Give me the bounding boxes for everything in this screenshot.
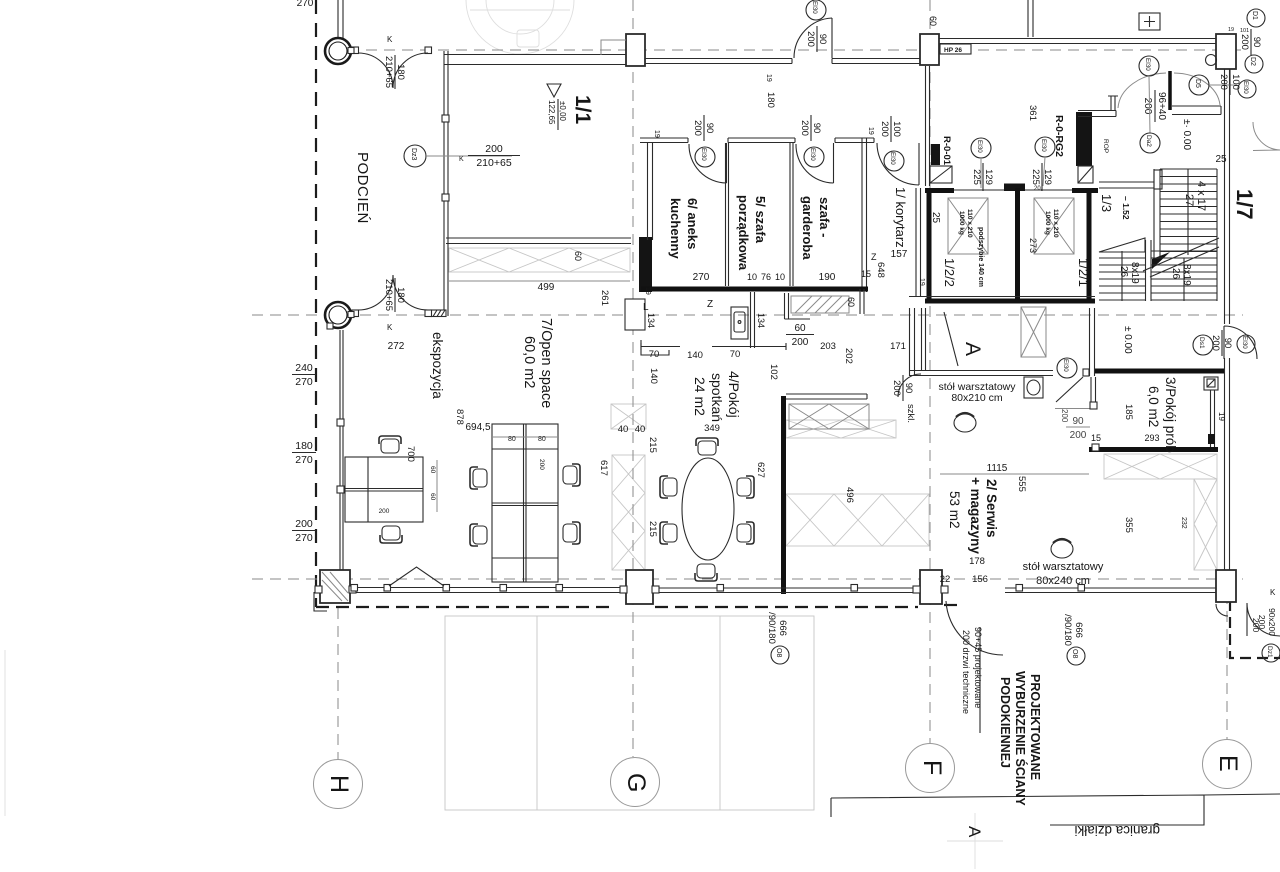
svg-text:K: K: [459, 156, 464, 163]
vestibule wall horizontal right part: [1172, 106, 1221, 115]
dim fraction 180/210+65 top door: [383, 55, 406, 89]
svg-text:60: 60: [794, 323, 806, 334]
stair small landing box: [1154, 170, 1162, 189]
door swing faint left of stub: [1118, 73, 1166, 108]
svg-text:102: 102: [768, 364, 779, 380]
svg-text:200: 200: [379, 508, 390, 515]
garderoba top wall segment: [835, 138, 874, 143]
kitchen door leaf and swing: [689, 143, 727, 183]
divider kitchen / room5: [726, 143, 729, 286]
fraction 100/200 right wall: [1218, 69, 1241, 95]
door 90/200 top wall swing: [794, 18, 832, 58]
duct right tick: [860, 289, 864, 314]
chair desk2 right upper: [563, 464, 580, 486]
svg-text:19: 19: [1228, 27, 1234, 33]
svg-text:273: 273: [1028, 238, 1038, 253]
svg-text:D2: D2: [1249, 57, 1256, 66]
room A / serwis wall: [909, 371, 1053, 376]
room 3 duct double line: [1211, 390, 1215, 447]
svg-text:190: 190: [819, 272, 836, 283]
svg-text:Da2: Da2: [1145, 135, 1152, 147]
svg-text:200: 200: [805, 31, 816, 47]
svg-text:90: 90: [1072, 416, 1084, 427]
level symbol triangle: [547, 84, 561, 97]
svg-text:/90/180: /90/180: [766, 612, 777, 644]
faint revolving-door arcs top: [466, 0, 574, 54]
kitchen top wall segment: [640, 138, 688, 143]
dim 499 with line: [449, 280, 630, 282]
small jog wall korytarz 1/3: [1108, 96, 1118, 110]
svg-text:1/7: 1/7: [1232, 189, 1257, 220]
chair oval top: [696, 438, 718, 455]
property boundary line granica dzialki: [831, 794, 1280, 825]
svg-text:EI30: EI30: [1242, 81, 1249, 94]
svg-text:185: 185: [1123, 404, 1134, 420]
svg-text:555: 555: [1016, 476, 1027, 492]
door Ds1 swing: [1224, 326, 1257, 359]
window sill wall left section: [352, 588, 624, 593]
EI30 circle room A door: [1057, 358, 1077, 378]
svg-text:PODCIEŃ: PODCIEŃ: [354, 152, 371, 224]
stair hall wall under riser: [1099, 182, 1154, 188]
svg-text:90x200: 90x200: [1267, 608, 1277, 636]
svg-text:EI30: EI30: [1062, 359, 1069, 372]
thick bottom wall of kitchen block: [641, 287, 868, 292]
grid axis F dashed: [929, 0, 931, 744]
column circle H mid: [325, 302, 354, 329]
svg-text:666: 666: [777, 620, 788, 636]
chair oval right1: [737, 476, 754, 498]
faint hatch left of room4: [611, 404, 646, 429]
ext double door top jambs: [352, 47, 359, 54]
faint racks serwis middle: [786, 494, 929, 546]
svg-text:O8: O8: [775, 648, 782, 657]
svg-text:240: 240: [295, 362, 313, 374]
E130 circle right: [1238, 80, 1256, 98]
svg-text:kuchenny: kuchenny: [668, 198, 683, 259]
T pier between shaft doors: [1004, 184, 1025, 192]
svg-text:272: 272: [388, 341, 405, 352]
svg-text:200: 200: [1060, 409, 1069, 423]
svg-text:7/Open space: 7/Open space: [538, 318, 554, 408]
svg-text:499: 499: [538, 282, 555, 293]
EI30 door top wall: circle + fraction: [806, 0, 826, 20]
korytarz inner wall along shafts: [916, 188, 921, 296]
svg-text:110 x 210: 110 x 210: [966, 209, 973, 238]
svg-text:60: 60: [573, 251, 583, 261]
svg-text:232: 232: [1180, 517, 1187, 529]
horizontal grid axis dashed y=315: [252, 314, 1243, 316]
entrance triangle mark: [389, 567, 444, 586]
chair oval left2: [660, 522, 677, 544]
divider room5 / garderoba: [790, 143, 793, 286]
chair desk1 top: [379, 436, 401, 453]
svg-text:Ds1: Ds1: [1198, 337, 1205, 349]
desk group 2 open space: [492, 424, 558, 582]
facade line left (glazing): [340, 330, 343, 570]
svg-text:24 m2: 24 m2: [692, 377, 708, 416]
svg-text:K: K: [387, 323, 393, 332]
svg-text:O8: O8: [1071, 649, 1078, 658]
stair break line diagonals: [1143, 238, 1219, 277]
svg-text:700: 700: [405, 446, 416, 462]
svg-text:225: 225: [971, 169, 982, 185]
grid bubble H: [314, 760, 363, 809]
svg-text:4 x 17: 4 x 17: [1195, 181, 1207, 211]
svg-text:1/1: 1/1: [571, 95, 594, 125]
window wall door swing SE: [946, 601, 1003, 655]
svg-text:22: 22: [940, 574, 951, 585]
svg-text:129: 129: [983, 169, 994, 185]
svg-text:60: 60: [429, 493, 436, 501]
svg-text:200: 200: [1239, 34, 1250, 50]
svg-text:60: 60: [928, 16, 938, 26]
corridor bottom line left: [641, 343, 680, 350]
entrance pier S2: [920, 570, 942, 604]
svg-text:EI30: EI30: [811, 1, 818, 14]
door dim group 666/90/180 left: [766, 612, 788, 644]
outer wall door top-right swing faint: [1253, 122, 1280, 151]
svg-text:210+65: 210+65: [383, 279, 394, 311]
top wall room 1/1 left segment: [444, 55, 626, 65]
svg-text:± 0.00: ± 0.00: [1122, 326, 1133, 354]
svg-text:26: 26: [1170, 268, 1181, 280]
svg-text:19: 19: [918, 278, 925, 286]
svg-text:90+45 projektowane: 90+45 projektowane: [973, 627, 983, 708]
svg-text:1/2/1: 1/2/1: [1076, 258, 1091, 287]
svg-text:26: 26: [1118, 266, 1129, 278]
svg-text:200: 200: [295, 518, 313, 530]
EI30 circle Ds1: [1237, 335, 1255, 353]
garderoba door leaf and swing: [796, 143, 834, 183]
svg-text:A: A: [965, 826, 984, 838]
washbasin room A: [1024, 377, 1043, 398]
EI30 circle shaft left: [971, 138, 991, 158]
svg-text:garderoba: garderoba: [800, 196, 815, 260]
black riser box R-0-RG2: [1076, 112, 1092, 166]
stair upper flight steps: [1154, 169, 1217, 258]
svg-text:100: 100: [1230, 74, 1241, 90]
room 3 black fitting on duct: [1208, 434, 1215, 444]
exterior vertical wall stub above top-right wall: [1028, 0, 1033, 37]
column box open space: [625, 299, 645, 330]
svg-text:A: A: [961, 342, 984, 356]
svg-text:D5: D5: [1194, 79, 1201, 88]
svg-text:80: 80: [538, 436, 546, 443]
duct hatched: [791, 296, 849, 313]
roof drain square on top wall: [1139, 13, 1160, 30]
svg-text:15: 15: [1091, 433, 1101, 443]
corridor 4 partition with sink: [751, 292, 755, 348]
svg-text:178: 178: [969, 556, 985, 567]
garderoba right wall: [862, 138, 867, 292]
svg-text:270: 270: [295, 376, 313, 388]
svg-text:Z: Z: [707, 299, 713, 310]
chair desk1 bottom: [380, 526, 402, 543]
svg-text:122,65: 122,65: [547, 100, 556, 125]
svg-text:G: G: [622, 773, 650, 792]
pier SW mullion squares: [315, 586, 322, 593]
svg-text:96+40: 96+40: [1156, 92, 1167, 121]
glass door label 90/200 szkl: [891, 375, 914, 401]
elevator car 2 hatch: [1034, 198, 1074, 254]
room A door jamb: [1083, 369, 1089, 376]
svg-text:40: 40: [618, 424, 629, 435]
svg-text:200: 200: [692, 120, 703, 136]
svg-text:20,: 20,: [1034, 186, 1043, 192]
svg-text:Dz1: Dz1: [1266, 646, 1273, 658]
glass door szkl swing: [898, 374, 921, 397]
faint shelving strip open space right: [612, 455, 645, 570]
EI30 circle shaft right: [1035, 137, 1055, 157]
Dz3 symbol circle: [404, 145, 426, 167]
room A door leaf inside: [944, 312, 958, 366]
shaft block top thick wall segments: [925, 188, 1098, 193]
column at G axis top: [626, 34, 645, 66]
faint racks serwis upper: [786, 420, 896, 438]
svg-text:1/ korytarz: 1/ korytarz: [893, 187, 908, 248]
svg-text:171: 171: [890, 341, 906, 352]
svg-text:180: 180: [395, 287, 406, 303]
svg-text:270: 270: [693, 272, 710, 283]
left facade wall vertical double (podcien edge): [444, 51, 448, 316]
svg-text:80x210 cm: 80x210 cm: [951, 392, 1003, 404]
korytarz door swing: [877, 143, 919, 185]
garderoba door EI30 circle: [804, 147, 824, 167]
grid axis E dashed lower: [1226, 575, 1228, 740]
entrance pier SW: [320, 570, 350, 603]
riser outline box with diagonal below: [1078, 166, 1093, 183]
room 1/1 bottom sill wall: [446, 238, 631, 244]
room A door leaf diagonal: [1056, 377, 1083, 402]
svg-text:200: 200: [1218, 74, 1229, 90]
svg-text:1000 kg: 1000 kg: [958, 211, 965, 235]
elevator car 1 hatch: [948, 198, 988, 254]
room 3 bottom-left jamb square: [1092, 444, 1099, 451]
svg-text:4/Pokój: 4/Pokój: [726, 371, 742, 418]
faint survey cross near A: [947, 813, 1003, 869]
thin line under shaft bottom wall: [909, 296, 1095, 298]
svg-text:157: 157: [891, 249, 908, 260]
right outer wall upper segment: [1225, 69, 1230, 324]
faint step rect near G column: [601, 40, 626, 55]
demolition dashed line along sill wall: [316, 606, 614, 608]
svg-text:90: 90: [704, 123, 715, 134]
svg-text:200: 200: [1142, 98, 1153, 115]
HP 26 label box: [940, 44, 971, 54]
svg-text:ekspozycja: ekspozycja: [430, 332, 445, 399]
svg-text:EI30: EI30: [889, 152, 896, 165]
mullion square on left wall: [442, 115, 449, 122]
svg-text:60: 60: [846, 297, 856, 307]
D5 circle: [1189, 75, 1209, 95]
svg-text:90: 90: [817, 34, 828, 45]
svg-text:349: 349: [704, 423, 720, 434]
svg-text:EI30: EI30: [1040, 139, 1047, 152]
svg-text:293: 293: [1144, 433, 1159, 443]
svg-text:210+65: 210+65: [383, 56, 394, 88]
EI30 circle vestibule: [1139, 56, 1159, 76]
svg-text:D1: D1: [1251, 11, 1258, 20]
svg-text:10: 10: [775, 272, 785, 282]
property corner dashed (thick): [1230, 600, 1280, 658]
facade mullion square: [337, 419, 344, 426]
fraction 90/200 top right: [1239, 29, 1262, 55]
korytarz door fraction 100/200: [879, 116, 902, 142]
dim 96+40/200 fraction: [1142, 90, 1167, 122]
svg-text:– 1.52: – 1.52: [1121, 196, 1131, 220]
svg-text:134: 134: [646, 313, 656, 328]
svg-text:K: K: [1270, 588, 1276, 597]
svg-text:270: 270: [295, 454, 313, 466]
mullion square on left wall: [442, 194, 449, 201]
room 2 top wall: [786, 394, 867, 399]
svg-text:3/Pokój prób: 3/Pokój prób: [1163, 377, 1178, 453]
svg-text:53 m2: 53 m2: [947, 491, 962, 529]
dim fraction 180/210+65 bottom door: [383, 278, 406, 312]
svg-text:19: 19: [867, 127, 874, 135]
korytarz door EI30 circle: [884, 151, 904, 171]
svg-text:L: L: [643, 302, 649, 313]
window sill wall mid section: [653, 588, 920, 593]
faint hatch band below room 1/1 sill: [449, 248, 630, 272]
grid bubble F: [906, 744, 955, 793]
oval conference table: [682, 458, 734, 560]
kitchen left wall: [648, 143, 653, 240]
svg-text:200: 200: [891, 380, 902, 396]
room 3 bottom thick wall: [1089, 447, 1218, 452]
chair oval right2: [737, 522, 754, 544]
stool serwis left: [954, 413, 976, 432]
corner bracket bottom-left of plan: [314, 592, 327, 611]
svg-text:6,0 m2: 6,0 m2: [1146, 386, 1161, 427]
column at F axis top: [920, 34, 939, 65]
corridor bottom line mid: [712, 343, 786, 350]
corridor partition right of duct: [785, 293, 811, 319]
hinge circle at E column: [1206, 55, 1217, 66]
svg-text:666: 666: [1073, 622, 1084, 638]
svg-text:110 x 210: 110 x 210: [1052, 209, 1059, 238]
svg-text:EI30: EI30: [809, 148, 816, 161]
door swing at pier SE inner: [1216, 604, 1228, 616]
svg-text:225: 225: [1030, 169, 1041, 185]
grid axis G dashed: [632, 0, 634, 757]
room A inner finish line: [922, 308, 926, 370]
window mullion squares along sill: [351, 585, 1085, 592]
svg-text:R-0-01: R-0-01: [941, 136, 952, 166]
top wall right high segment: [939, 39, 1216, 44]
Ds1 circle: [1193, 335, 1213, 355]
svg-text:/90/180: /90/180: [1062, 614, 1073, 646]
room A door threshold line: [1055, 408, 1092, 410]
svg-text:215: 215: [647, 521, 658, 537]
room 3 duct box with grille: [1204, 377, 1218, 390]
svg-text:617: 617: [598, 460, 609, 476]
svg-text:203: 203: [820, 341, 836, 352]
korytarz right wall: [926, 66, 930, 186]
stub wall above column H top: [338, 0, 343, 38]
svg-text:70: 70: [730, 349, 741, 360]
svg-text:EI30: EI30: [976, 140, 983, 153]
svg-text:HP 26: HP 26: [944, 47, 962, 54]
svg-text:648: 648: [875, 262, 886, 278]
grid bubble G: [611, 758, 660, 807]
svg-text:8x19: 8x19: [1181, 264, 1192, 286]
facade mullion square: [337, 486, 344, 493]
svg-text:WYBURZENIE ŚCIANY: WYBURZENIE ŚCIANY: [1013, 671, 1028, 806]
vestibule wall vertical thick stub: [1168, 71, 1172, 110]
svg-text:EI30: EI30: [1241, 336, 1248, 349]
svg-text:19: 19: [765, 74, 772, 82]
top wall mid-right segment after door: [832, 59, 920, 64]
svg-text:1000 kg: 1000 kg: [1044, 211, 1051, 235]
svg-text:80x240 cm: 80x240 cm: [1036, 575, 1090, 587]
svg-text:90: 90: [1251, 37, 1262, 48]
svg-text:200: 200: [792, 337, 809, 348]
right outer wall mid segment: [1225, 358, 1230, 570]
D2 circle: [1245, 55, 1263, 73]
svg-text:101: 101: [1240, 28, 1249, 34]
svg-text:355: 355: [1123, 517, 1134, 533]
svg-text:EI30: EI30: [1144, 58, 1151, 71]
parking divider: [536, 616, 538, 810]
entrance pier S1: [626, 570, 653, 604]
chair desk2 left upper: [470, 467, 487, 489]
svg-text:210+65: 210+65: [476, 157, 511, 169]
vestibule wall horizontal left part: [1078, 111, 1116, 117]
hatched wall stub at ekspozycja corner: [431, 310, 446, 317]
ext double door top swings: [358, 53, 428, 88]
sink corridor 4: [731, 307, 748, 339]
svg-text:19: 19: [1217, 412, 1226, 421]
svg-text:1/2/2: 1/2/2: [942, 258, 957, 287]
svg-text:19: 19: [653, 130, 660, 138]
kitchen door fraction 90/200: [692, 115, 715, 141]
stair flight center rail lower left: [1121, 251, 1123, 301]
svg-text:porządkowa: porządkowa: [736, 195, 751, 271]
svg-text:361: 361: [1027, 105, 1038, 121]
chair desk2 left lower: [470, 524, 487, 546]
shaft block bottom thick wall: [925, 299, 1095, 304]
svg-text:215: 215: [647, 437, 658, 453]
horizontal grid axis dashed y=50: [330, 49, 1243, 51]
svg-text:180: 180: [395, 64, 406, 80]
lower flight divider wall: [1146, 240, 1152, 301]
svg-text:10: 10: [747, 272, 757, 282]
svg-text:100: 100: [891, 121, 902, 137]
room 3 left wall upper: [1091, 377, 1096, 407]
svg-text:200: 200: [485, 143, 503, 155]
svg-text:134: 134: [756, 313, 766, 328]
svg-text:PODOKIENNEJ: PODOKIENNEJ: [998, 677, 1012, 768]
room 2 hatched cabinets: [789, 404, 869, 429]
svg-text:8x19: 8x19: [1129, 262, 1140, 284]
pier S2 mullion squares: [913, 586, 920, 593]
svg-text:70: 70: [649, 349, 660, 360]
faint racks serwis right band: [1104, 454, 1217, 570]
desk group 1 open space: [345, 457, 423, 522]
stair flight center rail lower right: [1183, 258, 1185, 301]
stair break black triangle: [1152, 252, 1170, 269]
svg-text:±· 0.00: ±· 0.00: [1181, 119, 1192, 150]
stair lower flight steps: [1099, 169, 1217, 301]
chair oval bottom: [695, 564, 717, 581]
pier S1 mullion squares: [620, 586, 627, 593]
parking divider: [719, 616, 721, 810]
svg-text:szkl.: szkl.: [905, 404, 916, 423]
svg-text:27: 27: [1183, 194, 1195, 206]
svg-text:90: 90: [811, 123, 822, 134]
